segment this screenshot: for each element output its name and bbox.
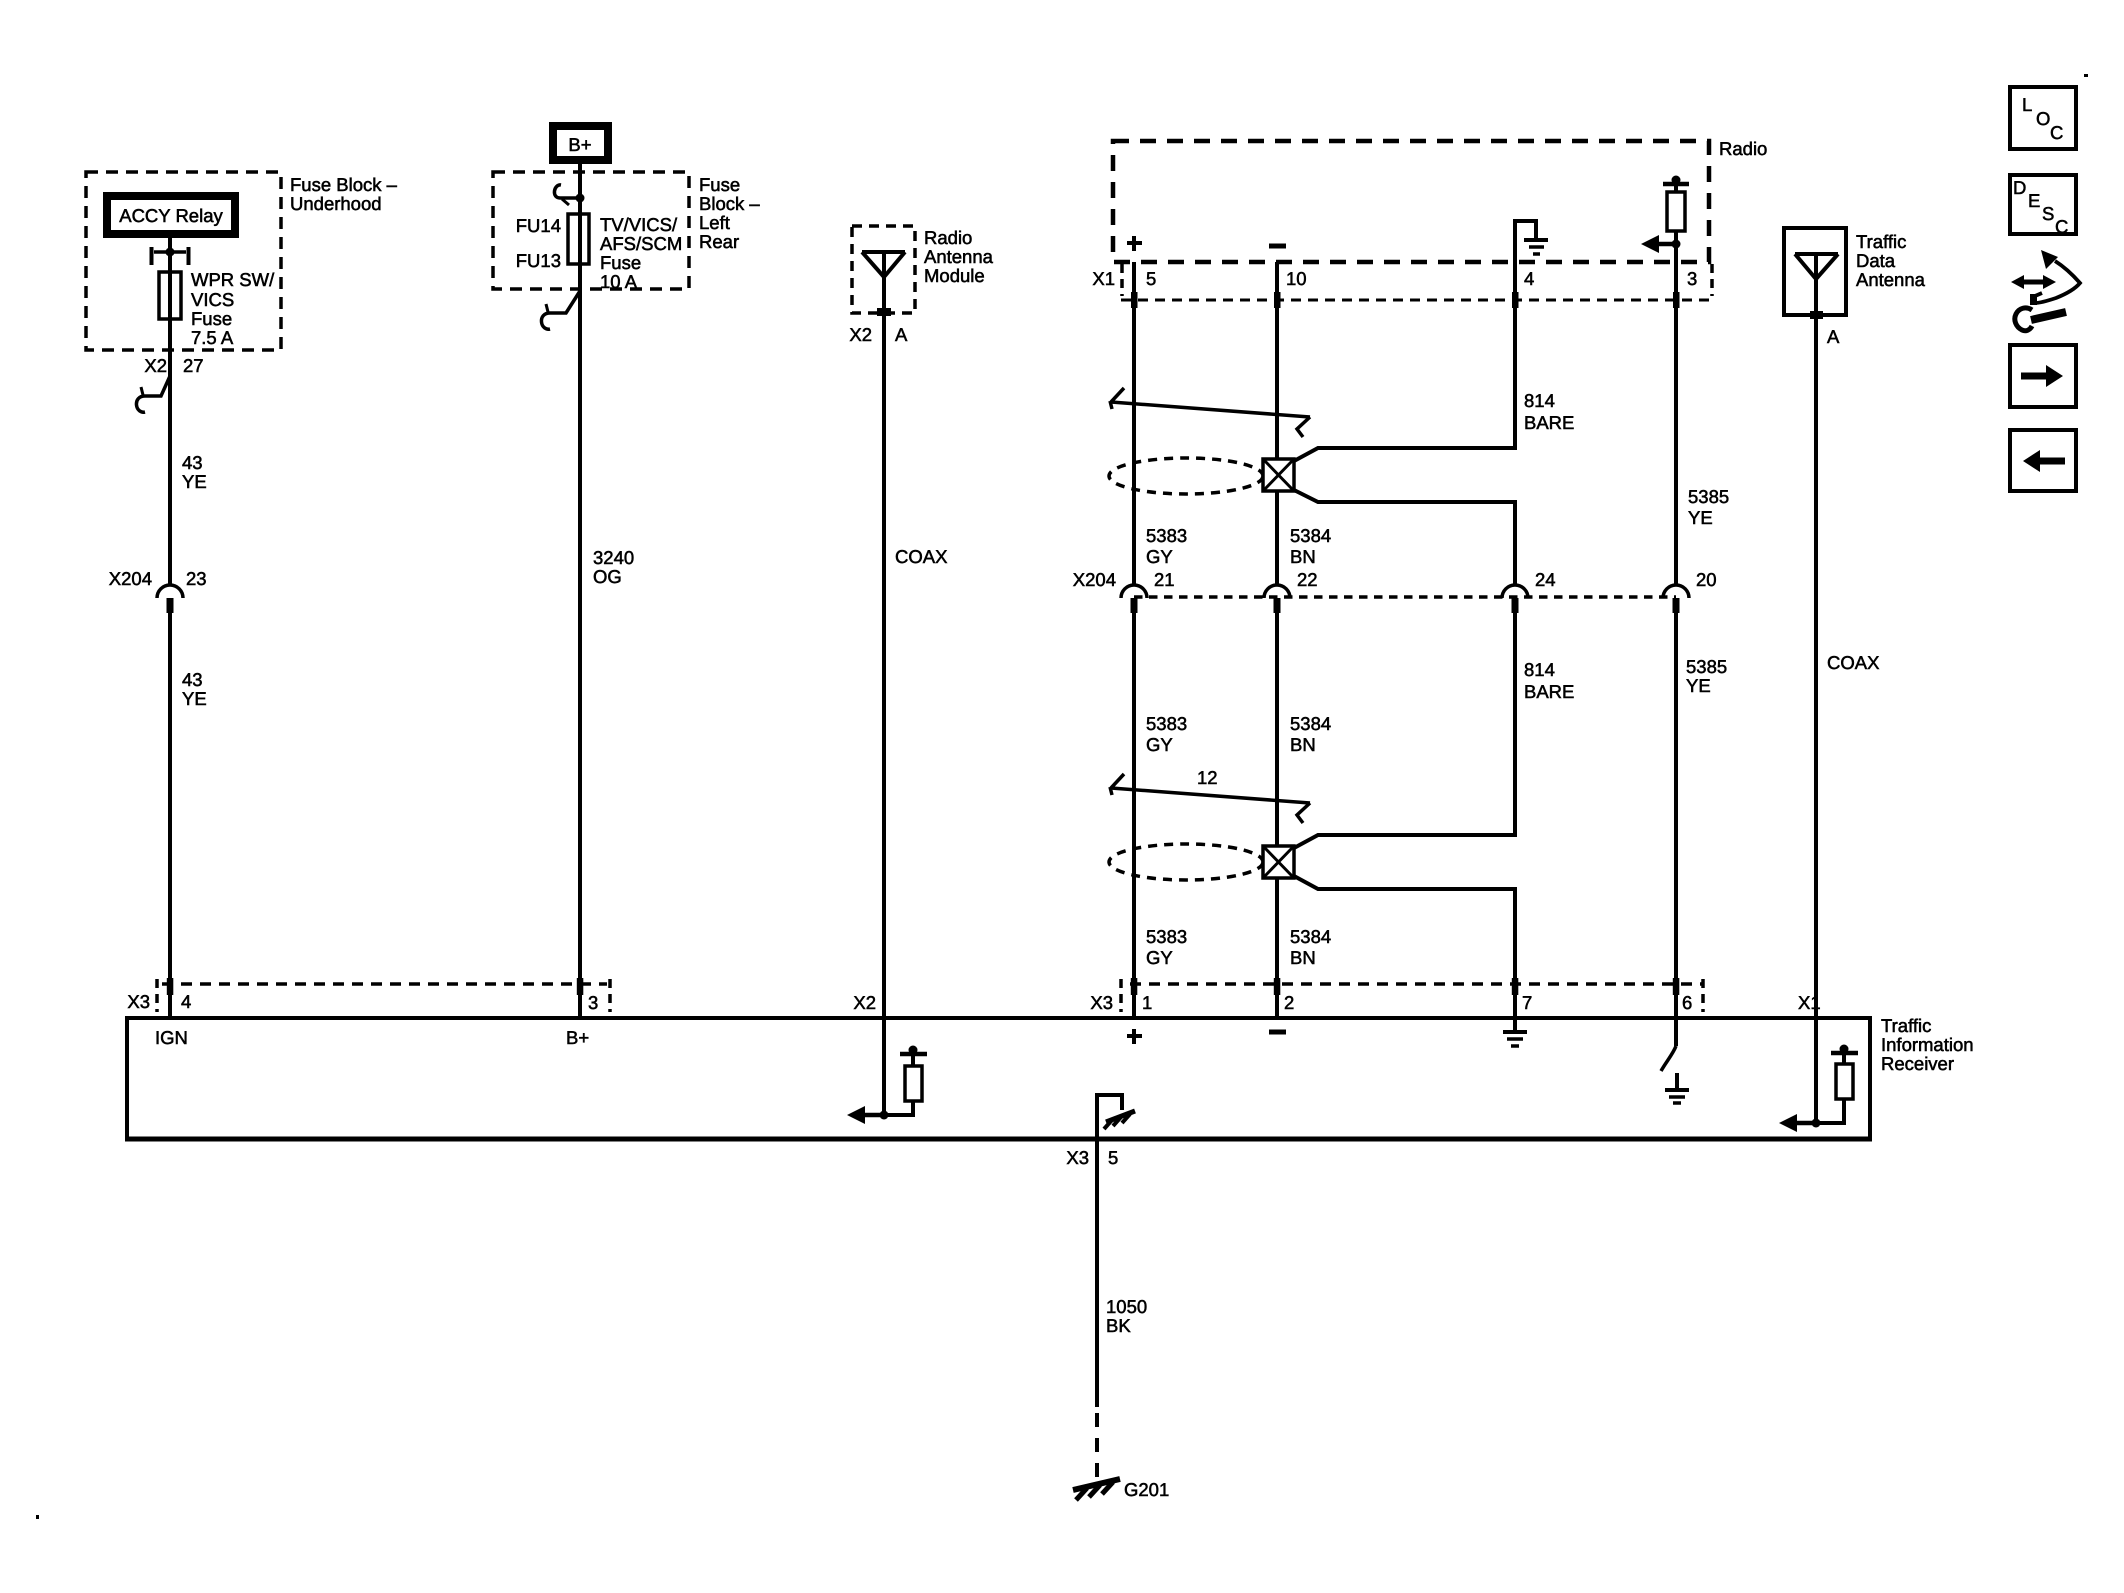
svg-text:E: E — [2028, 190, 2040, 211]
COAX wire from traffic data antenna to receiver X1 — [1814, 254, 1818, 1018]
svg-text:Information: Information — [1881, 1034, 1974, 1055]
LOC nav button — [2010, 87, 2076, 149]
wire 5384 BN radio X1-10 to X204-22 — [1275, 262, 1279, 584]
svg-text:Underhood: Underhood — [290, 193, 382, 214]
svg-text:GY: GY — [1146, 546, 1173, 567]
svg-text:5385: 5385 — [1688, 486, 1729, 507]
shield ellipse (lower) — [1109, 844, 1263, 880]
node + (radio audio +) — [1132, 236, 1136, 251]
svg-text:5383: 5383 — [1146, 926, 1187, 947]
svg-text:Radio: Radio — [924, 227, 972, 248]
radio enclosure — [1113, 141, 1709, 262]
svg-text:YE: YE — [182, 688, 207, 709]
svg-text:Module: Module — [924, 265, 985, 286]
svg-text:7: 7 — [1522, 992, 1532, 1013]
radio antenna module enclosure — [852, 226, 915, 313]
svg-text:G201: G201 — [1124, 1479, 1169, 1500]
svg-text:X204: X204 — [1073, 569, 1116, 590]
relay ACCY Relay — [107, 196, 235, 234]
fuse block left rear enclosure — [493, 172, 689, 289]
svg-text:X2: X2 — [853, 992, 876, 1013]
svg-text:12: 12 — [1197, 767, 1218, 788]
svg-text:3: 3 — [588, 992, 598, 1013]
svg-text:BN: BN — [1290, 546, 1316, 567]
svg-text:3: 3 — [1687, 268, 1697, 289]
antenna symbol — [1795, 252, 1838, 256]
svg-text:4: 4 — [1524, 268, 1534, 289]
svg-text:A: A — [1827, 326, 1840, 347]
harness repair icon (double arrow, outline, wrench) — [2011, 250, 2080, 331]
connector X3 interface (right, pins 1 2 7 6) — [1130, 982, 1703, 986]
svg-text:O: O — [2036, 108, 2050, 129]
svg-text:10: 10 — [1286, 268, 1307, 289]
wire 814 BARE shield drain lower — [1294, 612, 1515, 848]
svg-text:1: 1 — [1142, 992, 1152, 1013]
node + — [1132, 1029, 1136, 1044]
svg-text:27: 27 — [183, 355, 204, 376]
svg-text:5: 5 — [1146, 268, 1156, 289]
svg-text:X3: X3 — [127, 991, 150, 1012]
antenna input termination at X1 — [1814, 1018, 1818, 1123]
SECTION: column 1 IGN feed — [86, 172, 398, 1018]
junction dot at relay terminal — [166, 248, 175, 257]
svg-text:X2: X2 — [144, 355, 167, 376]
in-line connector clip below fuse block — [541, 291, 580, 329]
svg-text:Traffic: Traffic — [1856, 231, 1906, 252]
antenna feed resistor inside radio — [1672, 176, 1681, 185]
svg-text:6: 6 — [1682, 992, 1692, 1013]
svg-text:814: 814 — [1524, 390, 1555, 411]
connector tick X3-6 — [1673, 978, 1680, 995]
connector ticks at X1 interface — [1131, 292, 1138, 308]
terminal tick at module edge — [877, 308, 891, 316]
relay output terminal bracket — [150, 247, 154, 265]
svg-text:4: 4 — [181, 991, 191, 1012]
antenna input termination at X2 — [882, 1018, 886, 1115]
svg-text:BARE: BARE — [1524, 412, 1574, 433]
fuse block underhood enclosure — [86, 172, 281, 350]
ground symbol below pin 7 — [1513, 1018, 1517, 1031]
svg-text:24: 24 — [1535, 569, 1556, 590]
svg-text:WPR SW/: WPR SW/ — [191, 269, 275, 290]
next page arrow button — [2010, 345, 2076, 407]
junction dot feeding fuse — [576, 194, 585, 203]
svg-text:20: 20 — [1696, 569, 1717, 590]
svg-text:VICS: VICS — [191, 289, 234, 310]
previous page arrow button — [2010, 430, 2076, 491]
svg-text:C: C — [2050, 122, 2063, 143]
svg-text:B+: B+ — [566, 1027, 589, 1048]
fuse WPR SW/VICS 7.5 A — [159, 272, 181, 319]
svg-text:21: 21 — [1154, 569, 1175, 590]
svg-text:5385: 5385 — [1686, 656, 1727, 677]
svg-text:D: D — [2013, 177, 2026, 198]
terminal tick at enclosure edge — [1810, 311, 1823, 319]
svg-text:Antenna: Antenna — [1856, 269, 1926, 290]
svg-text:Block –: Block – — [699, 193, 760, 214]
svg-text:C: C — [2055, 216, 2068, 237]
svg-text:A: A — [895, 324, 908, 345]
svg-text:7.5 A: 7.5 A — [191, 327, 234, 348]
svg-text:814: 814 — [1524, 659, 1555, 680]
svg-text:BARE: BARE — [1524, 681, 1574, 702]
svg-text:Fuse: Fuse — [699, 174, 740, 195]
chassis ground hook to X3-5 — [1097, 1095, 1122, 1140]
wire 5383 GY radio X1-5 to X204-21 — [1132, 262, 1136, 584]
SECTION: traffic data antenna — [1784, 228, 1926, 1018]
svg-text:22: 22 — [1297, 569, 1318, 590]
fuse FU14/FU13 TV/VICS/AFS/SCM 10 A — [568, 214, 589, 264]
switch to ground below pin 6 — [1674, 1018, 1678, 1046]
SECTION: radio block and twisted pair — [1073, 138, 1768, 1018]
svg-text:X3: X3 — [1090, 992, 1113, 1013]
svg-text:43: 43 — [182, 452, 203, 473]
connector X3 interface (left, pins 4 and 3) — [162, 982, 607, 986]
shield ellipse (upper) — [1109, 458, 1263, 494]
svg-text:5383: 5383 — [1146, 525, 1187, 546]
svg-text:Antenna: Antenna — [924, 246, 994, 267]
svg-text:GY: GY — [1146, 947, 1173, 968]
node - (radio audio -) — [1269, 244, 1286, 249]
svg-text:Fuse: Fuse — [600, 252, 641, 273]
svg-text:ACCY Relay: ACCY Relay — [119, 205, 223, 226]
SECTION: column 2 B+ feed — [493, 126, 760, 1018]
antenna symbol in module — [862, 250, 905, 254]
svg-text:X1: X1 — [1798, 992, 1821, 1013]
svg-text:COAX: COAX — [1827, 652, 1879, 673]
svg-text:43: 43 — [182, 669, 203, 690]
wire 5385 YE X204-20 to receiver X3-6 — [1674, 612, 1678, 1018]
shield termination X-box (lower) — [1263, 846, 1294, 878]
terminal clip at fuse feed — [554, 185, 578, 198]
svg-text:TV/VICS/: TV/VICS/ — [600, 214, 678, 235]
svg-text:Rear: Rear — [699, 231, 739, 252]
in-line connector clip on wire — [136, 376, 170, 412]
svg-text:S: S — [2042, 203, 2054, 224]
svg-text:5384: 5384 — [1290, 926, 1331, 947]
svg-text:GY: GY — [1146, 734, 1173, 755]
svg-text:BK: BK — [1106, 1315, 1131, 1336]
svg-text:Traffic: Traffic — [1881, 1015, 1931, 1036]
svg-text:5383: 5383 — [1146, 713, 1187, 734]
svg-text:COAX: COAX — [895, 546, 947, 567]
svg-text:Receiver: Receiver — [1881, 1053, 1954, 1074]
scan speck bottom left — [36, 1515, 39, 1519]
svg-text:YE: YE — [1686, 675, 1711, 696]
svg-text:3240: 3240 — [593, 547, 634, 568]
svg-text:FU13: FU13 — [516, 250, 561, 271]
svg-text:YE: YE — [1688, 507, 1713, 528]
SECTION: receiver — [125, 978, 1974, 1500]
scan speck top right — [2084, 74, 2088, 77]
traffic information receiver enclosure — [127, 1018, 1870, 1139]
shield termination X-box (upper) — [1263, 459, 1294, 491]
svg-text:1050: 1050 — [1106, 1296, 1147, 1317]
connector tick X3-2 — [1274, 978, 1281, 995]
svg-text:Left: Left — [699, 212, 730, 233]
COAX wire from radio antenna module to receiver X2 — [882, 252, 886, 1018]
svg-text:X1: X1 — [1092, 268, 1115, 289]
svg-text:5384: 5384 — [1290, 525, 1331, 546]
svg-text:X2: X2 — [849, 324, 872, 345]
ground symbol inside radio (shield ground) — [1515, 221, 1536, 262]
svg-text:23: 23 — [186, 568, 207, 589]
svg-text:BN: BN — [1290, 947, 1316, 968]
svg-text:FU14: FU14 — [516, 215, 561, 236]
DESC nav button — [2010, 175, 2076, 234]
svg-text:B+: B+ — [568, 134, 591, 155]
wire 5383 GY X204-21 to receiver X3-1 — [1132, 612, 1136, 1018]
svg-text:2: 2 — [1284, 992, 1294, 1013]
wire 5385 YE radio X1-3 to X204-20 — [1674, 262, 1678, 584]
wire 3240 OG from B+ to receiver X3-3 — [578, 164, 582, 1018]
SECTION: column 3 radio antenna module — [849, 226, 993, 1018]
svg-text:10 A: 10 A — [600, 271, 638, 292]
ground G201 — [1073, 1479, 1120, 1490]
wire 1050 BK to G201 — [1095, 1140, 1099, 1407]
svg-text:YE: YE — [182, 471, 207, 492]
svg-text:X3: X3 — [1066, 1147, 1089, 1168]
SECTION: side icons — [2010, 87, 2080, 491]
svg-text:BN: BN — [1290, 734, 1316, 755]
svg-text:Fuse Block –: Fuse Block – — [290, 174, 398, 195]
wire 43 YE from X204-23 to receiver X3-4 — [168, 612, 172, 1018]
svg-text:L: L — [2022, 94, 2032, 115]
traffic data antenna enclosure — [1784, 228, 1846, 315]
signal arrow inside radio at pin 3 — [1672, 240, 1681, 249]
connector tick X3-3 — [577, 978, 584, 995]
wire 814 BARE shield drain upper — [1294, 262, 1515, 461]
connector tick X3-7 — [1512, 978, 1519, 995]
svg-text:Fuse: Fuse — [191, 308, 232, 329]
svg-text:Radio: Radio — [1719, 138, 1767, 159]
svg-text:IGN: IGN — [155, 1027, 188, 1048]
X1 connector dashed interface line — [1121, 299, 1712, 302]
svg-text:X204: X204 — [109, 568, 152, 589]
wire 5384 BN X204-22 to receiver X3-2 — [1275, 612, 1279, 1018]
connector tick X3-4 — [167, 978, 174, 995]
power node B+ — [553, 126, 608, 160]
wire 43 YE from ACCY relay to X204 — [168, 238, 172, 584]
svg-text:5384: 5384 — [1290, 713, 1331, 734]
svg-text:Data: Data — [1856, 250, 1896, 271]
node - — [1269, 1030, 1286, 1035]
connector tick X3-1 — [1131, 978, 1138, 995]
twisted pair marker (upper) — [1111, 402, 1310, 417]
svg-text:OG: OG — [593, 566, 622, 587]
svg-text:5: 5 — [1108, 1147, 1118, 1168]
svg-text:AFS/SCM: AFS/SCM — [600, 233, 682, 254]
